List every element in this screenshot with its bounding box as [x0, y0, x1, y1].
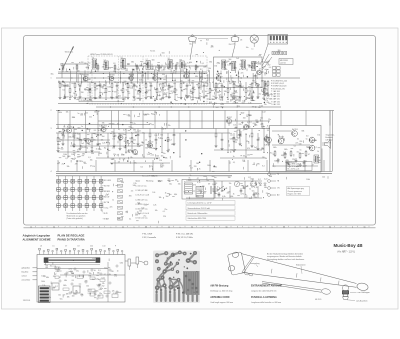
svg-text:1k: 1k [167, 89, 169, 91]
svg-text:18k: 18k [66, 293, 69, 295]
capacitor C25 [295, 158, 298, 163]
wire [113, 129, 115, 132]
svg-text:5n: 5n [95, 133, 97, 135]
wire [201, 111, 203, 129]
svg-text:50u: 50u [129, 88, 132, 90]
svg-text:2n2: 2n2 [137, 213, 140, 215]
svg-text:560: 560 [299, 143, 302, 145]
ground [64, 96, 67, 99]
svg-text:25u: 25u [61, 84, 64, 86]
svg-text:0,1: 0,1 [250, 122, 252, 124]
wire [244, 181, 246, 198]
transistor T21 [309, 145, 315, 151]
svg-text:22n: 22n [199, 96, 202, 98]
svg-text:10k: 10k [112, 147, 115, 149]
capacitor C29 [253, 192, 256, 197]
wire [180, 89, 182, 96]
ground [94, 96, 97, 99]
svg-text:47: 47 [145, 190, 147, 192]
svg-text:0,22: 0,22 [262, 112, 265, 114]
ground [113, 145, 116, 148]
junction blobs [59, 60, 267, 167]
ground [264, 93, 267, 96]
svg-text:2,2k: 2,2k [161, 70, 164, 72]
resistor R36 [73, 132, 75, 139]
wire [37, 268, 108, 270]
svg-text:12k: 12k [73, 135, 76, 137]
board component pad [66, 272, 68, 274]
ground [251, 145, 254, 148]
board component outline [55, 267, 60, 269]
svg-text:5n: 5n [205, 91, 207, 93]
svg-text:1k: 1k [267, 125, 269, 127]
svg-text:47: 47 [90, 72, 92, 74]
svg-text:100: 100 [179, 60, 182, 62]
svg-text:220: 220 [101, 127, 104, 129]
wire [262, 54, 269, 66]
svg-text:8,2: 8,2 [200, 69, 202, 71]
svg-text:Endstufe: Endstufe [326, 136, 333, 139]
svg-text:10k: 10k [234, 128, 237, 130]
svg-text:22n: 22n [182, 83, 185, 85]
tuner part number strip [79, 98, 124, 102]
svg-text:18k: 18k [75, 290, 78, 292]
svg-text:Cord length approx. 600 mm: Cord length approx. 600 mm [210, 301, 233, 304]
svg-text:(4 x NR7 - 1,5 V): (4 x NR7 - 1,5 V) [338, 252, 355, 254]
IF transformer L5 [168, 58, 173, 69]
svg-text:18k: 18k [159, 197, 162, 199]
svg-text:88: 88 [283, 226, 285, 228]
svg-text:2,2k: 2,2k [233, 62, 236, 64]
svg-text:T 1 AF 106: T 1 AF 106 [271, 90, 280, 93]
wire [56, 128, 270, 130]
svg-text:6,8k: 6,8k [127, 115, 130, 117]
resistor R34 [267, 80, 269, 87]
screwdriver pointer [242, 257, 254, 276]
wire [174, 94, 176, 100]
svg-text:100k: 100k [41, 281, 45, 283]
svg-text:8,2: 8,2 [63, 89, 65, 91]
svg-text:12k: 12k [102, 283, 105, 285]
FM tuner dashed enclosure [88, 56, 207, 104]
rod label 2 [296, 263, 306, 274]
svg-text:18k: 18k [175, 180, 178, 182]
svg-text:4,7k: 4,7k [214, 89, 217, 91]
svg-text:56: 56 [88, 226, 90, 228]
tuner internal dashed divider 3 [91, 56, 93, 104]
board component pad [57, 269, 59, 271]
svg-text:3,3: 3,3 [190, 167, 192, 169]
svg-text:8,2: 8,2 [117, 123, 119, 125]
wire [321, 149, 323, 172]
svg-text:12k: 12k [68, 137, 71, 139]
wire [136, 64, 138, 72]
svg-text:47: 47 [308, 154, 310, 156]
svg-text:2n2: 2n2 [247, 91, 250, 93]
battery B1 [208, 184, 217, 195]
svg-text:12k: 12k [225, 69, 228, 71]
meter M1 [234, 181, 239, 186]
svg-text:2,2k: 2,2k [118, 136, 121, 138]
dial lamp LP1 [250, 35, 258, 51]
wire [209, 160, 211, 172]
svg-text:PLAN DE REGLAGE: PLAN DE REGLAGE [58, 234, 85, 238]
svg-text:5k6: 5k6 [89, 100, 92, 102]
svg-text:220: 220 [110, 97, 113, 99]
wire [262, 57, 272, 70]
svg-text:5k6: 5k6 [97, 272, 100, 274]
annotation cluster [189, 163, 217, 172]
svg-text:2n2: 2n2 [176, 64, 179, 66]
resistor R45 [274, 150, 276, 157]
annotation cluster [61, 61, 269, 72]
svg-text:100: 100 [226, 102, 229, 104]
svg-text:18k: 18k [161, 128, 164, 130]
wire [323, 160, 325, 172]
svg-text:18k: 18k [141, 142, 144, 144]
svg-text:10k: 10k [70, 271, 73, 273]
svg-text:18k: 18k [167, 67, 170, 69]
capacitor C19 [173, 133, 176, 138]
svg-text:8,2: 8,2 [75, 133, 77, 135]
svg-text:22n: 22n [246, 141, 249, 143]
resistor R2 [69, 87, 71, 94]
svg-text:12k: 12k [70, 96, 73, 98]
transistor T4 [153, 73, 158, 81]
svg-text:2: 2 [51, 110, 52, 112]
svg-text:2n2: 2n2 [254, 147, 257, 149]
svg-text:5k6: 5k6 [121, 182, 124, 184]
resistor R48 [299, 152, 301, 159]
capacitor C5 [133, 83, 138, 88]
svg-text:33k: 33k [76, 138, 79, 140]
svg-text:ALIGNMENT SCHEME: ALIGNMENT SCHEME [23, 238, 51, 242]
wire [190, 160, 192, 172]
legend icon [118, 212, 123, 215]
IF transformer L2 [104, 59, 109, 69]
wire [224, 111, 226, 129]
wire [131, 133, 133, 136]
wire [154, 111, 156, 129]
svg-text:zum Umklappen: zum Umklappen [358, 292, 370, 294]
svg-text:5: 5 [272, 226, 273, 228]
resistor R15 [180, 82, 182, 89]
board component pad [69, 292, 71, 294]
svg-text:0,1: 0,1 [273, 166, 275, 168]
svg-text:220: 220 [94, 294, 97, 296]
svg-text:390: 390 [81, 92, 84, 94]
svg-text:50u: 50u [169, 184, 172, 186]
svg-text:50u: 50u [106, 67, 109, 69]
IF transformer L4 [146, 59, 151, 70]
wire [214, 181, 216, 198]
capacitor C13 [62, 133, 65, 138]
svg-text:470: 470 [193, 185, 196, 187]
wire [73, 139, 75, 145]
svg-text:2,2k: 2,2k [88, 293, 91, 295]
board component pad [81, 294, 83, 296]
wire [149, 129, 151, 132]
svg-text:6,8k: 6,8k [120, 263, 123, 265]
svg-text:5k6: 5k6 [162, 53, 165, 55]
svg-text:68k: 68k [91, 153, 94, 155]
svg-text:1,5k: 1,5k [132, 123, 135, 125]
svg-text:68k: 68k [131, 62, 134, 64]
ground [62, 143, 65, 146]
svg-text:470: 470 [181, 70, 184, 72]
svg-text:0,22: 0,22 [97, 284, 100, 286]
swivel label 1 [350, 292, 370, 294]
svg-text:T 5 AF 126: T 5 AF 126 [271, 100, 280, 103]
svg-text:220: 220 [111, 271, 114, 273]
annotation cluster [57, 125, 131, 164]
svg-text:47: 47 [117, 155, 119, 157]
svg-text:L10: L10 [103, 246, 106, 248]
svg-text:12: 12 [168, 226, 170, 228]
resistor R11 [145, 82, 147, 89]
svg-text:15k: 15k [154, 112, 157, 114]
base plate hole [232, 252, 239, 258]
svg-text:zum Ausziehen: zum Ausziehen [356, 300, 368, 303]
wire [203, 88, 205, 95]
wire [74, 89, 76, 96]
svg-text:50u: 50u [84, 163, 87, 165]
capacitor C10 [221, 83, 224, 88]
svg-text:1k: 1k [165, 193, 167, 195]
svg-text:-022.01: -022.01 [280, 63, 286, 65]
wire [130, 111, 132, 129]
battery contact block [39, 286, 51, 303]
wire [305, 111, 307, 126]
svg-text:Alle Spannungen geg.: Alle Spannungen geg. [288, 187, 305, 190]
svg-text:L4: L4 [104, 59, 106, 61]
svg-text:4/6 76 D: 4/6 76 D [315, 299, 322, 301]
node [228, 152, 229, 153]
svg-text:5k6: 5k6 [242, 103, 245, 105]
wire [263, 82, 265, 87]
svg-text:5n: 5n [144, 63, 146, 65]
svg-text:220: 220 [149, 124, 152, 126]
svg-text:L8 14 0,12 CuL: L8 14 0,12 CuL [136, 218, 148, 220]
ground [257, 147, 260, 150]
svg-text:1n: 1n [117, 271, 119, 273]
ground [149, 145, 152, 148]
capacitor C26 [303, 160, 306, 165]
svg-text:15k: 15k [86, 286, 89, 288]
svg-text:18k: 18k [125, 211, 128, 213]
svg-text:2n2: 2n2 [124, 141, 127, 143]
resistor R38 [113, 132, 115, 139]
wire [239, 129, 241, 133]
svg-text:F 81 UKW: F 81 UKW [103, 180, 112, 182]
svg-text:15k: 15k [243, 156, 246, 158]
svg-text:18k: 18k [112, 138, 115, 140]
svg-text:Verriegelung: Verriegelung [250, 262, 260, 265]
svg-text:25u: 25u [76, 270, 79, 272]
svg-text:5n: 5n [209, 89, 211, 91]
capacitor C28 [240, 188, 243, 193]
wire [251, 129, 253, 132]
svg-text:Lunghezza della funicella ca.: Lunghezza della funicella ca. 600 mm [251, 302, 282, 304]
svg-text:12k: 12k [152, 176, 155, 178]
board component outline [63, 288, 69, 290]
svg-text:50u: 50u [73, 152, 76, 154]
svg-text:8,2: 8,2 [258, 179, 260, 181]
svg-text:3,3: 3,3 [169, 140, 171, 142]
svg-text:F 8V, Osz. 468 kHz: F 8V, Osz. 468 kHz [176, 234, 193, 236]
wire [64, 88, 66, 95]
svg-text:50u: 50u [262, 98, 265, 100]
wire [133, 160, 135, 172]
legend icon [118, 206, 123, 209]
svg-text:5k6: 5k6 [92, 279, 95, 281]
svg-text:100k: 100k [259, 106, 263, 108]
svg-text:22n: 22n [152, 114, 155, 116]
wire [220, 157, 266, 159]
svg-text:390: 390 [113, 71, 116, 73]
svg-text:9: 9 [99, 226, 100, 228]
svg-text:68k: 68k [217, 92, 220, 94]
wire [178, 111, 180, 129]
svg-text:12k: 12k [159, 160, 162, 162]
svg-text:470: 470 [81, 147, 84, 149]
svg-text:22n: 22n [241, 73, 244, 75]
legend icon [118, 201, 123, 204]
svg-text:220: 220 [127, 64, 130, 66]
transistor T19 [292, 128, 298, 137]
annotation cluster [273, 131, 321, 168]
svg-text:1,5k: 1,5k [138, 73, 141, 75]
svg-text:25u: 25u [141, 75, 144, 77]
wire [272, 144, 310, 146]
svg-text:390: 390 [133, 130, 136, 132]
svg-text:100k: 100k [107, 87, 111, 89]
svg-text:100k: 100k [220, 104, 224, 106]
node [90, 99, 91, 100]
svg-text:68k: 68k [118, 219, 121, 221]
svg-text:220: 220 [194, 166, 197, 168]
svg-text:6,8k: 6,8k [222, 196, 225, 198]
resistor R44 [251, 132, 253, 139]
svg-text:Netzteil 29 302-011: Netzteil 29 302-011 [142, 175, 157, 178]
resistor R25 [62, 66, 64, 70]
capacitor C18 [155, 137, 158, 142]
wire [111, 89, 113, 96]
svg-text:21: 21 [122, 226, 124, 228]
svg-text:5: 5 [134, 226, 135, 228]
node [228, 99, 229, 100]
svg-text:220: 220 [239, 124, 242, 126]
svg-text:1n: 1n [81, 126, 83, 128]
svg-text:15k: 15k [229, 183, 232, 185]
power section enclosure [182, 180, 214, 200]
ground [155, 147, 158, 150]
resistor R32 [195, 66, 197, 70]
wire [228, 160, 230, 172]
wire [69, 111, 71, 129]
connector strip X1 [268, 35, 288, 45]
svg-text:0,1: 0,1 [165, 76, 167, 78]
svg-text:Abgleich-Lageplan: Abgleich-Lageplan [23, 234, 51, 238]
resistor R28 [114, 66, 116, 70]
svg-text:100: 100 [73, 294, 76, 296]
svg-text:ausgezogenen Glieder mit Einra: ausgezogenen Glieder mit Einrastschaltei… [267, 255, 303, 258]
legend icon [118, 179, 123, 182]
wire [70, 145, 140, 147]
capacitor C15 [97, 133, 100, 138]
capacitor C17 [137, 133, 140, 138]
svg-text:0,1: 0,1 [65, 158, 67, 160]
svg-text:F 82 KW: F 82 KW [103, 186, 110, 188]
svg-text:1k: 1k [88, 90, 90, 92]
svg-text:12k: 12k [123, 159, 126, 161]
IF transformer L7 [222, 60, 226, 69]
resistor R4 [89, 87, 91, 94]
bus crossing stubs [71, 69, 256, 86]
svg-text:10k: 10k [66, 111, 69, 113]
svg-text:0,1: 0,1 [202, 63, 204, 65]
wire [56, 175, 232, 177]
svg-text:5k6: 5k6 [45, 266, 48, 268]
ratio detector box [214, 57, 263, 88]
node [162, 152, 163, 153]
swivel label 2 [347, 300, 368, 303]
svg-text:4,7k: 4,7k [254, 187, 257, 189]
svg-text:100k: 100k [207, 165, 211, 167]
svg-text:100k: 100k [188, 179, 192, 181]
svg-text:6,8k: 6,8k [230, 138, 233, 140]
svg-text:25u: 25u [112, 159, 115, 161]
legend icon [118, 184, 123, 187]
svg-text:68k: 68k [302, 131, 305, 133]
board component pad [94, 291, 96, 293]
svg-text:2,2k: 2,2k [151, 154, 154, 156]
svg-text:Ri = 5k Ra = 25: Ri = 5k Ra = 25 [288, 169, 300, 171]
transistor T20 [309, 137, 315, 143]
resistor R37 [91, 136, 96, 143]
svg-text:50u: 50u [149, 83, 152, 85]
svg-text:6,8k: 6,8k [56, 271, 59, 273]
svg-text:470: 470 [61, 133, 64, 135]
wire [251, 139, 253, 145]
transistor T10 [101, 124, 107, 132]
svg-text:0,22: 0,22 [78, 74, 81, 76]
svg-text:3: 3 [51, 128, 52, 130]
antenna tip knob [356, 282, 368, 291]
wire [60, 139, 110, 141]
svg-text:12k: 12k [53, 276, 56, 278]
wire [161, 129, 163, 153]
svg-text:68k: 68k [171, 144, 174, 146]
switch S2 [217, 186, 225, 191]
svg-text:220: 220 [84, 63, 87, 65]
resistor R18 [209, 87, 211, 94]
transistor T3 [129, 73, 134, 81]
transistor T11 [118, 132, 124, 140]
svg-text:6,8k: 6,8k [174, 194, 177, 196]
svg-text:50u: 50u [205, 82, 208, 84]
svg-text:4,7k: 4,7k [158, 181, 161, 183]
svg-text:4: 4 [51, 171, 52, 173]
node [123, 99, 124, 100]
wire [156, 94, 158, 100]
svg-text:1k: 1k [228, 125, 230, 127]
ground [111, 96, 114, 99]
svg-text:34: 34 [329, 226, 331, 228]
svg-text:560: 560 [61, 149, 64, 151]
annotation cluster [217, 58, 265, 88]
wire [76, 160, 78, 172]
